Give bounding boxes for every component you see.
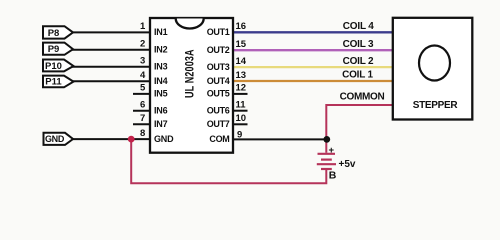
svg-text:OUT2: OUT2 xyxy=(207,45,230,55)
wire COIL2 yellow OUT3 to stepper xyxy=(233,66,393,68)
battery B plate long xyxy=(317,163,336,165)
svg-text:8: 8 xyxy=(140,128,145,139)
wire stub pin6 xyxy=(133,110,150,112)
svg-text:P8: P8 xyxy=(48,28,60,39)
svg-text:3: 3 xyxy=(140,56,145,67)
svg-text:7: 7 xyxy=(140,113,145,124)
svg-text:9: 9 xyxy=(237,129,242,140)
wire red battery negative to bottom rail xyxy=(131,139,326,183)
svg-text:+: + xyxy=(329,145,335,156)
svg-text:5: 5 xyxy=(140,83,146,94)
port tag P8 xyxy=(43,26,73,39)
svg-text:IN2: IN2 xyxy=(154,45,168,55)
svg-text:IN7: IN7 xyxy=(154,119,168,129)
svg-text:16: 16 xyxy=(236,21,247,32)
svg-text:COIL 3: COIL 3 xyxy=(343,39,374,50)
svg-text:4: 4 xyxy=(140,70,146,81)
port tag P9 xyxy=(43,43,73,56)
svg-text:12: 12 xyxy=(236,83,247,94)
battery B plate negative short xyxy=(321,168,332,170)
svg-text:OUT4: OUT4 xyxy=(207,76,230,86)
svg-text:IN6: IN6 xyxy=(154,106,168,116)
svg-text:2: 2 xyxy=(140,39,145,50)
svg-text:10: 10 xyxy=(236,113,247,124)
svg-text:11: 11 xyxy=(236,100,247,111)
wire stub pin11 xyxy=(233,110,248,112)
svg-text:P11: P11 xyxy=(45,77,62,88)
wire COIL4 navy OUT1 to stepper xyxy=(233,31,393,33)
svg-text:OUT7: OUT7 xyxy=(207,119,230,129)
wire pin3 P10 to IN3 xyxy=(71,66,150,68)
svg-text:6: 6 xyxy=(140,100,145,111)
junction node battery top xyxy=(323,136,330,143)
svg-text:14: 14 xyxy=(236,56,247,67)
battery B plate short xyxy=(321,159,332,161)
svg-text:COIL 4: COIL 4 xyxy=(343,21,374,32)
svg-text:COIL 1: COIL 1 xyxy=(342,70,373,81)
svg-text:IN5: IN5 xyxy=(154,89,168,99)
junction node on GND wire xyxy=(128,136,135,143)
wire COIL1 orange OUT4 to stepper xyxy=(233,80,393,82)
port tag GND xyxy=(44,133,74,145)
svg-text:IN1: IN1 xyxy=(154,27,168,37)
port tag P10 xyxy=(43,60,74,72)
svg-text:COM: COM xyxy=(209,134,229,144)
svg-text:COMMON: COMMON xyxy=(340,92,385,103)
svg-text:13: 13 xyxy=(236,70,247,81)
svg-text:OUT1: OUT1 xyxy=(207,27,230,37)
svg-text:B: B xyxy=(329,170,337,182)
wire pin1 P8 to IN1 xyxy=(70,31,150,33)
svg-text:UL N2003A: UL N2003A xyxy=(183,49,197,98)
svg-text:P9: P9 xyxy=(48,44,60,55)
svg-text:IN3: IN3 xyxy=(154,62,168,72)
svg-text:OUT5: OUT5 xyxy=(207,89,230,99)
wire COIL3 pink OUT2 to stepper xyxy=(233,49,393,51)
IC notch xyxy=(176,19,204,29)
svg-text:OUT3: OUT3 xyxy=(207,62,230,72)
wire stub pin5 xyxy=(133,93,150,95)
svg-text:GND: GND xyxy=(45,134,65,144)
wire pin4 P11 to IN4 xyxy=(71,80,150,82)
stepper motor rotor circle xyxy=(419,46,450,81)
svg-text:COIL 2: COIL 2 xyxy=(343,56,374,67)
wire pin8 GND tag to GND pin xyxy=(70,138,150,140)
stepper motor M1 box xyxy=(393,18,473,120)
svg-text:IN4: IN4 xyxy=(154,76,168,86)
IC U1 ULN2003A body xyxy=(150,18,233,153)
wire stub pin10 xyxy=(233,123,248,125)
wire red COMMON from battery node to stepper xyxy=(326,105,393,153)
svg-text:STEPPER: STEPPER xyxy=(413,100,459,111)
svg-text:P10: P10 xyxy=(45,61,62,72)
port tag P11 xyxy=(43,76,74,88)
wire pin2 P9 to IN2 xyxy=(70,49,150,51)
svg-text:1: 1 xyxy=(140,21,146,32)
wire stub pin7 xyxy=(133,123,150,125)
wire pin9 COM to battery node xyxy=(233,138,327,140)
battery B plate positive long xyxy=(318,153,336,155)
svg-text:OUT6: OUT6 xyxy=(207,106,230,116)
svg-text:15: 15 xyxy=(236,39,247,50)
svg-text:+5v: +5v xyxy=(339,159,356,170)
svg-text:GND: GND xyxy=(154,134,174,144)
wire stub pin12 xyxy=(233,93,248,95)
